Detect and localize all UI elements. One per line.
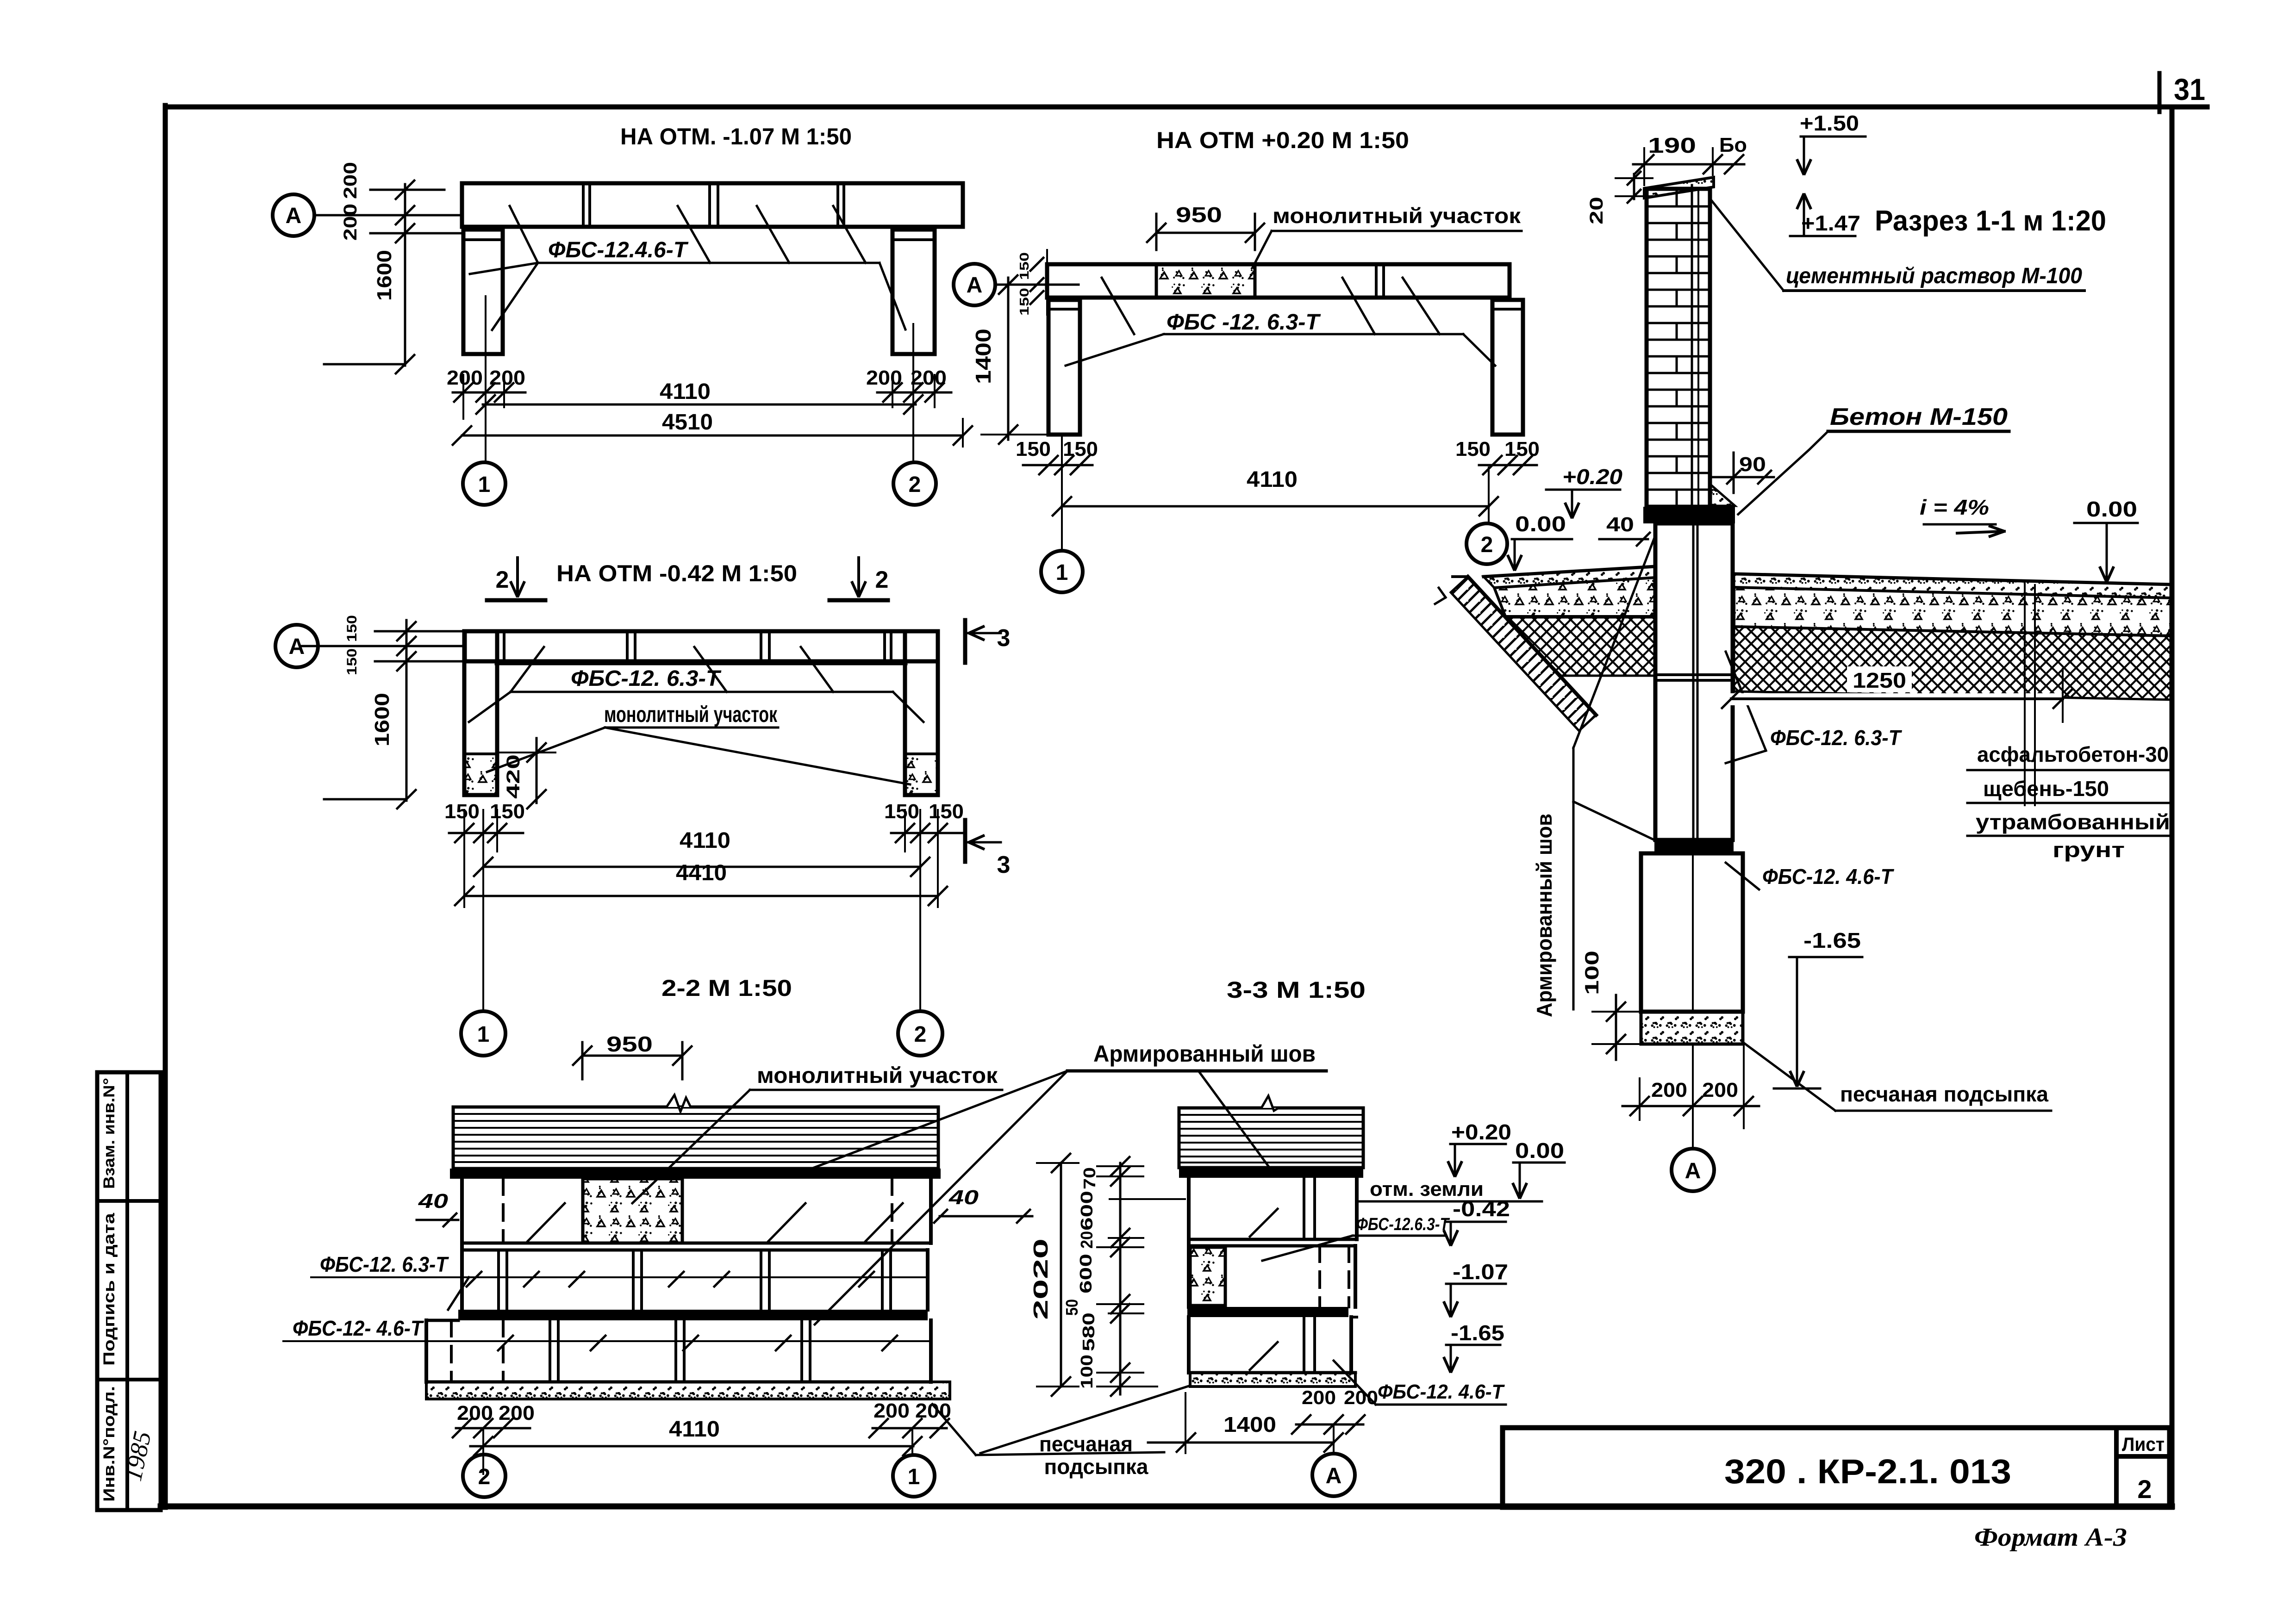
svg-text:3: 3 [997, 625, 1011, 652]
svg-text:4410: 4410 [676, 861, 727, 885]
left column (plan -1.07) [463, 230, 503, 354]
reinforced joint bar 2 (section 2-2) [458, 1310, 928, 1320]
axis A circle (plan -0.42) [275, 625, 318, 667]
concrete fill at column feet [464, 754, 497, 795]
svg-text:150: 150 [1063, 438, 1098, 460]
svg-text:4110: 4110 [680, 828, 730, 853]
svg-text:асфальтобетон-30: асфальтобетон-30 [1977, 742, 2169, 766]
svg-text:3-3 М 1:50: 3-3 М 1:50 [1227, 977, 1366, 1003]
svg-text:600: 600 [1076, 1254, 1095, 1293]
block row 2 (section 3-3) [1189, 1244, 1355, 1248]
svg-text:90: 90 [1739, 453, 1766, 476]
svg-text:цементный раствор М-100: цементный раствор М-100 [1786, 264, 2082, 288]
svg-text:2020: 2020 [1029, 1238, 1052, 1320]
svg-text:20: 20 [1586, 197, 1607, 224]
svg-text:4510: 4510 [662, 410, 713, 435]
axis circle 1 (plan +0.20) [1041, 551, 1083, 592]
row slashes (3-3) [1250, 1209, 1278, 1237]
svg-text:200: 200 [457, 1402, 493, 1424]
block row 1 (section 3-3) [1187, 1178, 1191, 1239]
beam joint [1375, 264, 1378, 298]
svg-text:-0.42: -0.42 [1453, 1197, 1510, 1221]
svg-text:2: 2 [909, 473, 921, 497]
svg-text:20: 20 [1077, 1231, 1096, 1249]
svg-text:150: 150 [344, 648, 360, 675]
sand bedding (section 2-2) [426, 1382, 950, 1399]
svg-text:150: 150 [1504, 438, 1540, 460]
svg-text:монолитный участок: монолитный участок [604, 703, 778, 727]
axis circle A (3-3) [1312, 1454, 1355, 1496]
svg-text:1: 1 [478, 473, 491, 497]
svg-text:ФБС-12.6.3-Т: ФБС-12.6.3-Т [1356, 1215, 1450, 1234]
section mark 3 top [963, 620, 967, 663]
svg-text:Формат А-3: Формат А-3 [1974, 1523, 2127, 1552]
svg-text:монолитный участок: монолитный участок [757, 1063, 998, 1088]
svg-text:1: 1 [477, 1022, 490, 1047]
svg-text:1: 1 [1056, 560, 1068, 585]
svg-text:2-2 М 1:50: 2-2 М 1:50 [661, 975, 792, 1001]
svg-text:200: 200 [873, 1399, 910, 1422]
svg-text:40: 40 [948, 1186, 979, 1209]
svg-text:НА ОТМ. -1.07 М 1:50: НА ОТМ. -1.07 М 1:50 [620, 124, 852, 149]
title block [1503, 1428, 2170, 1507]
svg-text:420: 420 [503, 754, 524, 799]
reinforced joint bar 2 (section 1-1) [1654, 840, 1734, 853]
svg-text:200: 200 [1651, 1079, 1687, 1101]
axis circle 2 (plan +0.20 / section 1-1) [1466, 523, 1507, 564]
brick wall [1647, 189, 1710, 507]
svg-text:Взам. инв.N°: Взам. инв.N° [100, 1078, 118, 1189]
wall axis line [1691, 185, 1693, 507]
page number 31 [2158, 73, 2162, 112]
monolithic concrete patch in beam [1156, 264, 1255, 298]
pavement annotation leaders [2024, 584, 2026, 805]
svg-text:40: 40 [418, 1190, 449, 1213]
axis extensions (plan -0.42) [463, 810, 465, 907]
svg-text:150: 150 [490, 800, 525, 823]
svg-text:Инв.N°подл.: Инв.N°подл. [100, 1386, 118, 1502]
reinforced joint bar 2 (section 3-3) [1187, 1307, 1348, 1317]
block row 3 (section 2-2) [424, 1320, 428, 1382]
svg-text:1600: 1600 [373, 250, 396, 301]
svg-text:ФБС-12- 4.6-Т: ФБС-12- 4.6-Т [293, 1316, 424, 1340]
svg-text:2: 2 [875, 566, 889, 593]
svg-text:2: 2 [2137, 1474, 2152, 1504]
beam of FBS blocks (plan -1.07) [462, 183, 963, 227]
svg-text:Подпись и дата: Подпись и дата [100, 1213, 118, 1366]
sand bedding under foundation [1641, 1012, 1743, 1044]
svg-text:950: 950 [606, 1032, 653, 1056]
lower foundation block FBS-12.4.6-T [1641, 853, 1743, 1012]
right column (plan -0.42) [905, 631, 938, 795]
right column (plan -1.07) [892, 230, 935, 354]
svg-text:А: А [1685, 1159, 1701, 1183]
beam joints (plan -0.42) [496, 631, 499, 661]
svg-text:1400: 1400 [1223, 1412, 1276, 1436]
svg-text:1600: 1600 [371, 693, 393, 746]
svg-text:А: А [1326, 1464, 1342, 1488]
svg-text:утрамбованный: утрамбованный [1976, 810, 2170, 834]
svg-text:0.00: 0.00 [1515, 512, 1566, 536]
svg-text:100: 100 [1581, 951, 1603, 995]
floor slab left of wall [1484, 566, 1655, 577]
cement mortar cap [1644, 177, 1714, 198]
right column (plan +0.20) [1492, 300, 1523, 435]
svg-text:1: 1 [908, 1465, 920, 1489]
axis circle 1 (plan -1.07) [463, 462, 505, 505]
svg-text:-1.65: -1.65 [1451, 1321, 1504, 1345]
svg-text:Разрез 1-1 м 1:20: Разрез 1-1 м 1:20 [1875, 205, 2106, 237]
outdoor pavement surface [1734, 574, 2172, 585]
axis A circle (plan +0.20) [954, 264, 995, 305]
svg-text:+1.47: +1.47 [1801, 211, 1860, 235]
compacted soil layer [1734, 627, 2172, 700]
svg-text:150: 150 [1017, 252, 1031, 280]
svg-text:190: 190 [1648, 133, 1696, 157]
block row 2 (section 2-2) [462, 1249, 928, 1252]
svg-text:Бо: Бо [1719, 134, 1747, 156]
svg-text:ФБС-12.4.6-Т: ФБС-12.4.6-Т [548, 238, 689, 262]
floor slab (section 2-2) [453, 1107, 938, 1169]
svg-text:50: 50 [1062, 1299, 1081, 1316]
svg-text:Армированный шов: Армированный шов [1093, 1041, 1316, 1067]
svg-text:Бетон М-150: Бетон М-150 [1830, 404, 2008, 430]
svg-text:подсыпка: подсыпка [1044, 1455, 1148, 1479]
soil under floor (hatched) [1505, 617, 1655, 676]
svg-text:0.00: 0.00 [2086, 497, 2137, 521]
monolithic patch row 1 [583, 1179, 682, 1243]
svg-text:i = 4%: i = 4% [1920, 495, 1989, 519]
svg-text:150: 150 [884, 800, 919, 823]
upper foundation blocks FBS-12.6.3-T [1655, 523, 1733, 840]
svg-text:+1.50: +1.50 [1800, 111, 1859, 135]
beam of FBS blocks (plan -0.42) [465, 631, 938, 661]
asphalt layer [1734, 574, 2172, 598]
svg-text:950: 950 [1176, 203, 1222, 227]
svg-text:150: 150 [929, 800, 964, 823]
svg-text:100: 100 [1077, 1355, 1096, 1389]
svg-text:4110: 4110 [660, 379, 711, 404]
svg-text:песчаная подсыпка: песчаная подсыпка [1840, 1082, 2048, 1106]
svg-text:580: 580 [1079, 1312, 1098, 1351]
slab break mark [667, 1095, 691, 1112]
svg-text:150: 150 [1016, 438, 1051, 460]
axis circle A (section 1-1) [1672, 1149, 1714, 1191]
side stamp column [97, 1072, 161, 1510]
beam bottom heavy line [497, 660, 905, 665]
svg-text:Армированный шов: Армированный шов [1532, 814, 1556, 1017]
beam joints [582, 183, 585, 227]
svg-text:40: 40 [1606, 513, 1634, 536]
axis circle 1 (section 2-2) [893, 1455, 935, 1497]
svg-text:ФБС-12. 6.3-Т: ФБС-12. 6.3-Т [1770, 726, 1903, 750]
concrete wedge at wall base [1710, 484, 1735, 506]
row 1 slashes [528, 1203, 565, 1241]
svg-text:150: 150 [344, 615, 360, 642]
reinforced joint bar 1 (section 1-1) [1643, 507, 1735, 523]
reinforced joint bar 1 (section 3-3) [1179, 1168, 1363, 1178]
slab break mark (3-3) [1261, 1096, 1279, 1111]
svg-text:4110: 4110 [1247, 467, 1298, 492]
dashed joints row 2 (3-3) [1318, 1246, 1321, 1307]
svg-text:4110: 4110 [669, 1417, 720, 1442]
svg-text:200: 200 [340, 162, 361, 199]
svg-text:2: 2 [496, 566, 509, 593]
svg-text:200: 200 [447, 367, 483, 389]
beam of FBS blocks (plan +0.20) [1047, 264, 1510, 298]
svg-text:грунт: грунт [2053, 838, 2125, 862]
svg-text:+0.20: +0.20 [1451, 1120, 1511, 1144]
svg-text:1250: 1250 [1853, 668, 1906, 692]
rubble layer [1734, 587, 2172, 636]
concrete patch row 2 (3-3) [1190, 1247, 1225, 1306]
svg-text:200: 200 [1302, 1387, 1336, 1408]
dashed joints row 1 [502, 1179, 505, 1243]
svg-text:А: А [967, 273, 983, 298]
svg-text:монолитный участок: монолитный участок [1273, 204, 1521, 228]
floor slab (section 3-3) [1179, 1108, 1363, 1168]
svg-text:200: 200 [1702, 1079, 1738, 1101]
svg-text:ФБС-12. 4.6-Т: ФБС-12. 4.6-Т [1762, 864, 1895, 889]
dim 1250 [1847, 666, 1912, 692]
svg-text:3: 3 [997, 852, 1011, 878]
svg-text:31: 31 [2174, 72, 2205, 106]
svg-text:ФБС-12. 6.3-Т: ФБС-12. 6.3-Т [571, 666, 722, 691]
left column (plan -0.42) [464, 631, 497, 795]
svg-text:200: 200 [866, 367, 902, 389]
svg-text:200: 200 [1344, 1387, 1378, 1408]
svg-text:600: 600 [1077, 1191, 1096, 1231]
vertical dim stack 2020/70/600/20/600/50/580/100 [1060, 1163, 1062, 1387]
svg-text:щебень-150: щебень-150 [1983, 777, 2109, 801]
block row 3 (section 3-3) [1187, 1317, 1191, 1373]
svg-text:НА ОТМ +0.20 М 1:50: НА ОТМ +0.20 М 1:50 [1156, 127, 1409, 153]
svg-text:150: 150 [444, 800, 480, 823]
svg-text:2: 2 [914, 1022, 927, 1047]
svg-text:2: 2 [478, 1465, 491, 1489]
svg-text:2: 2 [1481, 533, 1493, 557]
sheet border frame [165, 105, 2207, 110]
left column (plan +0.20) [1048, 300, 1080, 435]
axis circle 2 (plan -0.42) [898, 1011, 942, 1056]
svg-text:Лист: Лист [2122, 1433, 2165, 1455]
axis extension lines (plan -1.07) [462, 375, 464, 419]
svg-text:200: 200 [340, 204, 361, 241]
svg-text:А: А [286, 204, 302, 228]
axis A leader line [314, 214, 462, 217]
svg-text:НА ОТМ -0.42 М 1:50: НА ОТМ -0.42 М 1:50 [556, 560, 797, 586]
svg-text:1400: 1400 [971, 329, 995, 384]
axis A circle (plan -1.07) [273, 194, 314, 236]
svg-text:-1.07: -1.07 [1453, 1260, 1508, 1284]
reinforced joint bar 1 (section 2-2) [450, 1169, 941, 1179]
excavation slope [1468, 577, 1596, 715]
svg-text:ФБС-12. 4.6-Т: ФБС-12. 4.6-Т [1378, 1380, 1505, 1403]
svg-text:ФБС -12. 6.3-Т: ФБС -12. 6.3-Т [1167, 310, 1321, 335]
svg-text:0.00: 0.00 [1515, 1138, 1564, 1163]
svg-text:+0.20: +0.20 [1562, 465, 1622, 489]
svg-text:70: 70 [1080, 1167, 1099, 1189]
svg-text:320 . КР-2.1. 013: 320 . КР-2.1. 013 [1724, 1452, 2011, 1491]
axis circle 1 (plan -0.42) [461, 1011, 505, 1056]
svg-text:-1.65: -1.65 [1803, 928, 1861, 952]
svg-text:200: 200 [489, 367, 525, 389]
svg-text:ФБС-12. 6.3-Т: ФБС-12. 6.3-Т [320, 1252, 449, 1276]
svg-text:200: 200 [499, 1402, 535, 1424]
concrete underlay left [1494, 578, 1655, 616]
block row 1 (section 2-2) [460, 1179, 464, 1243]
svg-text:150: 150 [1017, 288, 1031, 316]
sand bedding (section 3-3) [1190, 1373, 1355, 1387]
svg-text:150: 150 [1455, 438, 1491, 460]
section mark 3 bottom [963, 820, 967, 862]
dashed joints row 3 [450, 1320, 453, 1382]
axis circle 2 (section 2-2) [463, 1455, 505, 1497]
axis circle 2 (plan -1.07) [893, 462, 936, 505]
